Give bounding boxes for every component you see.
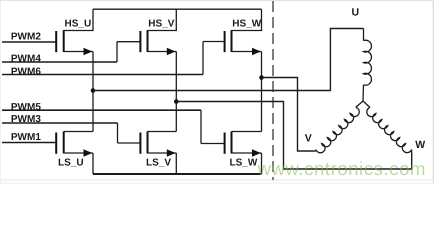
wire W terminal tail [411,150,413,154]
svg-text:PWM3: PWM3 [11,114,41,125]
svg-text:LS_U: LS_U [58,157,84,168]
wire star to V winding [356,101,363,107]
transistor Q5 HS_W source arrow [252,48,261,56]
transistor Q1 HS_U channel bar [63,30,65,52]
transistor Q2 LS_U gate bar [55,133,57,154]
node phase V junction dot [174,99,179,104]
wire PWM2 rail [2,41,56,43]
wire HS_V source lead [148,51,177,53]
wire V terminal tail [315,150,317,151]
wire phase U to motor [93,29,364,91]
wire LS_W source drop [261,153,263,174]
transistor Q6 LS_W gate bar [224,133,226,154]
node phase U junction dot [91,88,96,93]
transistor Q5 HS_W gate bar [224,31,226,52]
transistor Q1 HS_U source arrow [84,48,93,56]
wire HS_W source lead [232,51,262,53]
transistor Q4 LS_V gate bar [139,133,141,154]
wire phase column U vertical [92,52,94,132]
wire PWM6 riser to HS_W gate [202,42,204,75]
wire PWM4 riser to HS_V gate [116,42,118,62]
dashed partition line [272,1,274,180]
transistor Q2 LS_U channel bar [63,132,65,154]
svg-text:PWM2: PWM2 [11,32,41,43]
wire LS_V source lead [148,152,177,154]
wire PWM1 rail [2,142,56,144]
wire top supply rail [93,8,262,10]
wire LS_W drain lead [232,131,262,133]
wire LS_V drain lead [148,131,177,133]
wire PWM3 dropper to LS_V gate [117,123,119,143]
wire phase column V vertical [175,52,177,132]
inductor V winding [316,107,359,152]
transistor Q6 LS_W source arrow [252,149,261,157]
inductor U winding [364,40,372,85]
inductor W winding [367,108,412,153]
wire HS_U drain to top rail [64,9,93,30]
wire HS_U source lead [64,51,93,53]
svg-text:U: U [352,7,360,19]
transistor Q3 HS_V source arrow [167,48,176,56]
wire HS_W gate lead [203,41,225,43]
svg-text:PWM6: PWM6 [11,66,41,77]
wire star to W winding [363,101,370,108]
transistor Q6 LS_W channel bar [231,132,233,154]
wire phase to W terminal [176,102,411,170]
svg-text:HS_V: HS_V [148,19,174,30]
transistor Q3 HS_V channel bar [147,30,149,52]
svg-text:LS_V: LS_V [146,157,171,168]
wire PWM5 dropper to LS_W gate [200,110,202,143]
svg-text:PWM4: PWM4 [11,53,41,64]
svg-text:V: V [305,133,312,145]
wire LS_W gate lead [201,143,225,145]
wire phase column W vertical [261,52,263,132]
svg-text:W: W [415,139,425,151]
wire PWM6 rail [2,74,203,76]
svg-text:HS_U: HS_U [65,19,92,30]
wire HS_V gate lead [117,41,140,43]
svg-text:PWM1: PWM1 [11,132,41,143]
transistor Q1 HS_U gate bar [55,31,57,52]
wire bottom return rail [93,173,262,175]
wire U coil entry [363,29,365,41]
svg-text:PWM5: PWM5 [11,102,41,113]
svg-text:HS_W: HS_W [232,19,261,30]
transistor Q3 HS_V gate bar [139,31,141,52]
wire U coil to star point [362,85,365,101]
wire phase to V terminal [262,78,316,152]
wire HS_W drain to top rail [232,9,262,30]
svg-text:LS_W: LS_W [230,157,258,168]
wire LS_U source drop [92,153,94,174]
wire HS_V drain to top rail [148,9,177,30]
transistor Q4 LS_V source arrow [167,149,176,157]
transistor Q2 LS_U source arrow [84,149,93,157]
wire PWM3 rail [2,122,118,124]
transistor Q4 LS_V channel bar [147,132,149,154]
transistor Q5 HS_W channel bar [231,30,233,52]
wire LS_W source lead [232,152,262,154]
wire LS_U source lead [64,152,93,154]
node phase W junction dot [259,75,264,80]
wire LS_U drain lead [64,131,93,133]
wire PWM4 rail [2,61,117,63]
wire LS_V gate lead [118,142,141,144]
wire LS_V source drop [175,153,177,174]
svg-text:www.cntronics.com: www.cntronics.com [257,158,427,179]
wire PWM5 rail [2,109,201,111]
